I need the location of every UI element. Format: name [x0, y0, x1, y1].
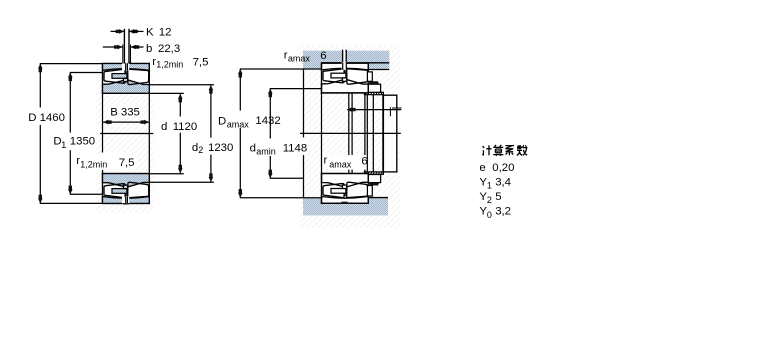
svg-text:1460: 1460	[40, 112, 65, 124]
svg-text:D: D	[218, 115, 226, 127]
svg-text:0,20: 0,20	[492, 162, 514, 174]
数	[517, 145, 528, 155]
dim damin line	[269, 89, 271, 139]
svg-text:B: B	[110, 107, 118, 119]
svg-text:3,4: 3,4	[495, 177, 511, 189]
svg-text:1,2min: 1,2min	[156, 59, 183, 69]
housing bore line top	[322, 62, 343, 64]
roller left	[104, 69, 125, 83]
svg-text:r: r	[324, 155, 328, 167]
svg-text:d: d	[161, 121, 167, 133]
dim d2 1230	[150, 84, 214, 86]
svg-text:1120: 1120	[173, 121, 198, 133]
svg-text:1: 1	[487, 181, 492, 191]
nut block bottom	[368, 175, 381, 183]
centerline right	[300, 132, 401, 134]
dim b 22,3 arrows	[103, 46, 123, 48]
centerline	[100, 132, 153, 134]
cage bar	[112, 74, 127, 79]
lube hole gap W33	[122, 63, 129, 70]
dim K 12 arrows	[111, 30, 124, 32]
sleeve lines mid	[348, 92, 350, 175]
svg-text:7,5: 7,5	[193, 56, 209, 68]
label damin 1148	[282, 139, 309, 153]
label ramax 6 (inner)	[323, 155, 367, 170]
svg-text:7,5: 7,5	[119, 157, 135, 169]
bearing upper section	[103, 63, 150, 94]
thread ticks bottom flange	[366, 172, 383, 174]
系	[505, 146, 514, 156]
svg-text:e: e	[479, 162, 485, 174]
dim d 1120	[150, 92, 184, 94]
svg-text:2: 2	[198, 145, 203, 155]
dim D1 1350	[70, 72, 102, 74]
section body	[103, 64, 150, 94]
nut body sides	[372, 95, 374, 172]
dim damin ext lines	[270, 88, 322, 90]
bearing upper section (right, unfilled)	[322, 62, 369, 93]
nut flange top	[364, 92, 383, 94]
clip dark bottom	[369, 183, 379, 186]
算	[493, 145, 503, 156]
svg-text:6: 6	[320, 50, 326, 62]
groove width lines (b)	[122, 45, 124, 64]
svg-text:1432: 1432	[255, 115, 280, 127]
r arrow bottom	[368, 185, 373, 189]
left figure watermark hatch	[96, 59, 154, 213]
sleeve nut big rect	[383, 95, 396, 172]
right figure watermark hatch	[299, 45, 401, 228]
sleeve step right of bearing bottom	[367, 186, 372, 197]
svg-text:d: d	[192, 142, 198, 154]
svg-text:1230: 1230	[208, 142, 233, 154]
svg-text:335: 335	[121, 107, 140, 119]
bearing side faces through middle	[102, 93, 104, 152]
outer ring	[103, 64, 150, 71]
svg-text:amax: amax	[329, 159, 352, 169]
housing block top	[303, 51, 389, 70]
svg-text:1,2min: 1,2min	[80, 160, 107, 170]
svg-text:22,3: 22,3	[158, 43, 180, 55]
dim B 335	[109, 105, 143, 118]
svg-text:6: 6	[361, 155, 367, 167]
dim Damax line	[239, 69, 241, 111]
svg-text:1148: 1148	[283, 142, 308, 154]
cage center piece	[123, 78, 127, 81]
clip dark top	[369, 81, 379, 84]
svg-text:3,2: 3,2	[495, 206, 511, 218]
roller right	[128, 69, 149, 84]
nut flange bottom	[364, 172, 383, 174]
bearing lower section (right, mirror)	[322, 173, 369, 203]
svg-text:1350: 1350	[70, 136, 95, 148]
svg-text:2: 2	[487, 195, 492, 205]
shaft/housing block bottom	[303, 198, 388, 216]
inner ring	[103, 80, 150, 93]
r arrow top	[368, 78, 373, 82]
bearing lower section (mirror)	[103, 174, 150, 205]
svg-text:amin: amin	[256, 146, 276, 156]
shoulder face vertical	[303, 69, 305, 137]
svg-text:0: 0	[487, 210, 492, 220]
nut block top	[368, 84, 381, 92]
cage link	[125, 71, 127, 74]
svg-text:5: 5	[495, 191, 501, 203]
svg-text:amax: amax	[288, 54, 311, 64]
计	[482, 145, 491, 155]
leader line with arrow	[347, 109, 401, 111]
svg-text:amax: amax	[227, 120, 250, 130]
label r 1,2min 7,5 (bottom)	[76, 153, 137, 170]
thread ticks top flange	[366, 93, 383, 95]
bearing left face mid	[321, 92, 323, 175]
svg-text:12: 12	[159, 26, 172, 38]
svg-text:d: d	[250, 142, 256, 154]
dim D 1460	[40, 63, 103, 65]
svg-text:b: b	[146, 43, 152, 55]
svg-text:K: K	[146, 26, 154, 38]
dim Damax ext lines	[240, 68, 322, 70]
lube hole through housing	[342, 50, 347, 64]
sleeve step right of bearing top	[367, 72, 372, 81]
svg-text:1: 1	[61, 140, 66, 150]
svg-text:D: D	[28, 112, 36, 124]
lube groove lines above (K)	[123, 29, 125, 64]
